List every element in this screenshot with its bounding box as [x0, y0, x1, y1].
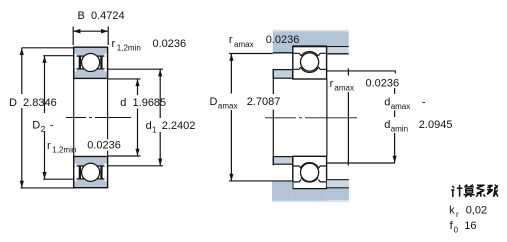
bore silhouette right	[107, 78, 109, 156]
da dimension dashed line and arrow	[394, 88, 396, 163]
label d1 2.2402	[146, 120, 196, 135]
svg-text:D: D	[32, 119, 40, 131]
dimension d1: line and arrows	[158, 69, 162, 166]
bore silhouette left	[73, 78, 75, 156]
dimension Damax: extension lines	[229, 53, 273, 55]
svg-text:k: k	[449, 205, 455, 217]
svg-text:amin: amin	[391, 124, 408, 133]
centerline right figure	[265, 117, 357, 119]
svg-text:0.0236: 0.0236	[366, 78, 400, 90]
bottom section outline	[74, 157, 108, 188]
inner ring raceway bottom section	[293, 163, 327, 169]
svg-text:amax: amax	[334, 83, 354, 92]
svg-text:0: 0	[454, 225, 459, 234]
数	[487, 185, 498, 197]
label r_1,2min 0.0236 top	[112, 38, 187, 53]
svg-text:-: -	[422, 97, 426, 109]
svg-text:d: d	[384, 97, 390, 109]
label D2 -	[32, 119, 54, 134]
dimension B: line and arrows	[73, 27, 108, 46]
outer ring raceway top section	[293, 52, 327, 57]
label Damax 2.7087	[210, 96, 281, 111]
da extension line top	[327, 71, 396, 74]
svg-text:1: 1	[152, 126, 157, 135]
dimension D: extension lines	[22, 47, 74, 49]
svg-text:2.7087: 2.7087	[247, 96, 281, 108]
svg-text:D 2.8346: D 2.8346	[9, 97, 57, 109]
svg-text:d: d	[384, 119, 390, 131]
svg-text:amax: amax	[391, 102, 411, 111]
centerline left figure	[66, 117, 131, 119]
housing top block	[273, 30, 349, 54]
label r_1,2min 0.0236 bottom left	[86, 139, 123, 150]
ball top section	[82, 53, 100, 71]
chamfer notches bottom section	[75, 164, 107, 181]
svg-text:amax: amax	[234, 40, 254, 49]
shaft end face line	[326, 79, 328, 156]
label damin 2.0945	[384, 119, 452, 133]
heading 计算系数 (drawn strokes)	[451, 185, 498, 198]
da extension line bottom	[327, 162, 395, 164]
svg-text:amax: amax	[218, 101, 238, 110]
shaft shoulder top	[273, 70, 292, 79]
svg-text:D: D	[210, 96, 218, 108]
label damax -	[384, 97, 426, 112]
inner ring bottom section (blue band)	[74, 157, 107, 166]
outer ring bottom section (blue band)	[74, 179, 107, 188]
ring land bars bottom section	[79, 166, 103, 179]
ball top section (right figure)	[301, 53, 319, 71]
svg-text:B 0.4724: B 0.4724	[78, 10, 125, 22]
dimension D2: line and arrows	[42, 56, 46, 180]
svg-text:1,2min: 1,2min	[52, 145, 76, 154]
svg-text:-: -	[50, 119, 54, 131]
计	[451, 185, 462, 197]
svg-text:1,2min: 1,2min	[117, 44, 141, 53]
svg-text:16: 16	[464, 220, 476, 232]
svg-text:0.0236: 0.0236	[266, 34, 300, 46]
svg-text:2.0945: 2.0945	[419, 119, 453, 131]
svg-text:r: r	[112, 38, 116, 50]
outer ring raceway bottom section	[293, 177, 327, 182]
svg-text:2: 2	[41, 125, 46, 134]
outer ring top section (blue band)	[74, 48, 107, 57]
svg-text:0.0236: 0.0236	[153, 38, 187, 50]
svg-text:0,02: 0,02	[466, 205, 487, 217]
label r_amax middle	[330, 78, 400, 93]
svg-text:2.2402: 2.2402	[162, 120, 196, 132]
shaft shoulder bottom	[273, 157, 292, 165]
label f0 16	[450, 220, 477, 235]
dimension d1: extension lines	[108, 68, 163, 70]
dimension d: line and arrows	[135, 79, 139, 156]
dimension D2: extension lines	[43, 55, 74, 57]
svg-text:d: d	[146, 120, 152, 132]
top section outline	[74, 47, 108, 78]
inner ring top section (blue band)	[74, 69, 107, 78]
svg-text:r: r	[330, 78, 334, 90]
算	[464, 185, 475, 198]
svg-text:r: r	[229, 34, 233, 46]
housing bore silhouette line	[347, 68, 349, 165]
bearing bottom section (right figure) outline	[293, 156, 327, 188]
label kr 0,02	[449, 205, 487, 220]
svg-text:r: r	[456, 210, 459, 219]
bearing top section (right figure) outline	[293, 47, 327, 79]
svg-text:0.0236: 0.0236	[87, 140, 121, 152]
housing bottom block	[272, 180, 349, 202]
chamfer notches top section	[75, 54, 107, 72]
inner ring raceway top section	[293, 67, 327, 73]
label r_amax top left	[229, 34, 299, 49]
dimension D: line and arrows	[20, 48, 24, 188]
ring land bars top section	[79, 56, 103, 69]
dimension d: extension lines	[108, 78, 141, 80]
svg-text:r: r	[47, 140, 51, 152]
svg-text:d 1.9685: d 1.9685	[120, 97, 166, 109]
shaft shoulder silhouette line	[272, 69, 274, 165]
dimension Damax: line and arrows	[229, 54, 233, 181]
ball bottom section	[82, 163, 100, 181]
ball bottom section (right figure)	[301, 163, 319, 181]
系	[476, 185, 485, 197]
